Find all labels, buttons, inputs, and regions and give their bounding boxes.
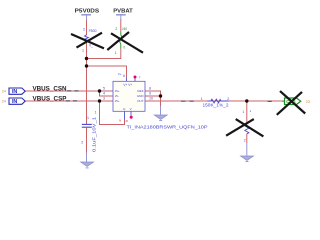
svg-text:6: 6 bbox=[123, 74, 125, 78]
svg-text:8: 8 bbox=[149, 87, 151, 91]
op-amp U INA2180 current sense amplifier bbox=[95, 72, 153, 123]
net label trailing dashes CSN bbox=[67, 90, 78, 91]
svg-text:2: 2 bbox=[244, 138, 246, 142]
svg-text:VBUS_CSN: VBUS_CSN bbox=[33, 86, 68, 93]
resistor R (DNP) to ground bbox=[243, 109, 252, 142]
svg-text:N: N bbox=[119, 119, 121, 123]
wire DNP resistor to ground stub bbox=[246, 134, 248, 143]
pin NC top stub bbox=[134, 78, 136, 82]
power port PVBAT bbox=[113, 9, 133, 20]
svg-text:1: 1 bbox=[95, 110, 97, 114]
svg-text:3: 3 bbox=[103, 96, 105, 100]
svg-text:J40: J40 bbox=[122, 27, 127, 31]
wire jumper bottom to junction bbox=[87, 49, 121, 59]
jumper J (DNP) on PVBAT bbox=[115, 27, 127, 55]
no-ERC dot bottom bbox=[130, 116, 133, 119]
svg-text:IN: IN bbox=[12, 99, 17, 105]
svg-text:P5V0DS: P5V0DS bbox=[75, 9, 100, 15]
svg-text:IN+: IN+ bbox=[115, 89, 120, 93]
wire OUT to output port bbox=[145, 100, 285, 102]
svg-text:PVBAT: PVBAT bbox=[113, 9, 133, 15]
port VBUS_CSN bbox=[2, 88, 25, 95]
svg-text:GND: GND bbox=[137, 94, 145, 98]
svg-text:VBUS_CSP: VBUS_CSP bbox=[33, 96, 67, 103]
wire CSP branch to IC bottom pin bbox=[100, 101, 125, 125]
wire from bead down through junctions to cap bbox=[86, 43, 88, 125]
svg-text:24: 24 bbox=[2, 90, 6, 94]
junction dot V+ branch bbox=[85, 64, 88, 67]
svg-text:1: 1 bbox=[201, 97, 203, 101]
net label dashes on OUT wire bbox=[181, 101, 272, 102]
svg-text:0: 0 bbox=[123, 46, 125, 50]
svg-text:REF: REF bbox=[137, 89, 143, 93]
wire cap to ground stub bbox=[86, 128, 88, 153]
svg-text:4: 4 bbox=[103, 91, 105, 95]
wire REF pin to ground node bbox=[145, 91, 161, 96]
junction dot CSN bbox=[98, 89, 101, 92]
power port P5V0DS bbox=[75, 9, 100, 21]
pin V+ top stub bbox=[126, 78, 128, 81]
svg-text:2: 2 bbox=[227, 97, 229, 101]
ground (right, below DNP resistor) bbox=[241, 143, 254, 162]
junction dot OUT bbox=[245, 99, 248, 102]
wire ground node red stub bbox=[160, 96, 162, 106]
svg-text:10: 10 bbox=[149, 97, 153, 101]
svg-text:2: 2 bbox=[115, 27, 117, 31]
svg-text:7: 7 bbox=[139, 75, 141, 79]
resistor R 150K bbox=[201, 97, 230, 108]
svg-text:1: 1 bbox=[243, 110, 245, 114]
svg-text:V+: V+ bbox=[118, 72, 122, 76]
wire OUT branch down to DNP resistor bbox=[246, 101, 248, 125]
wire GND pin bbox=[145, 95, 161, 97]
junction dot REF/GND bbox=[159, 94, 162, 97]
svg-text:OUT: OUT bbox=[137, 99, 144, 103]
DNP cross over resistor bbox=[226, 119, 263, 136]
capacitor C 0.1uF bbox=[81, 116, 96, 152]
svg-text:1: 1 bbox=[250, 109, 252, 113]
svg-text:24: 24 bbox=[2, 100, 6, 104]
DNP cross over ferrite bead bbox=[71, 33, 104, 49]
DNP cross over output port bbox=[277, 91, 305, 115]
svg-text:FB30: FB30 bbox=[89, 29, 97, 33]
DNP cross over jumper bbox=[107, 32, 143, 53]
svg-text:2: 2 bbox=[81, 141, 83, 145]
svg-text:IN: IN bbox=[12, 89, 17, 95]
wire PVBAT stub bbox=[120, 19, 122, 32]
port output (DNP) bbox=[282, 98, 310, 105]
svg-text:1: 1 bbox=[115, 51, 117, 55]
svg-text:1: 1 bbox=[82, 48, 84, 52]
svg-text:9: 9 bbox=[149, 92, 151, 96]
svg-text:150K_1%_2: 150K_1%_2 bbox=[203, 103, 230, 108]
wire P5V0DS vertical feed bbox=[86, 20, 88, 35]
ground (left, below cap) bbox=[81, 153, 94, 168]
svg-text:5: 5 bbox=[103, 86, 105, 90]
svg-text:2: 2 bbox=[83, 27, 85, 31]
svg-text:1: 1 bbox=[87, 116, 89, 120]
svg-text:23: 23 bbox=[306, 100, 310, 104]
wire V+ branch to IC top pin bbox=[87, 66, 127, 78]
svg-text:TI_INA2180BRSWR_UQFN_10P: TI_INA2180BRSWR_UQFN_10P bbox=[127, 125, 208, 131]
svg-text:0.1uF_10V_1: 0.1uF_10V_1 bbox=[92, 116, 97, 152]
svg-text:IN+: IN+ bbox=[115, 99, 120, 103]
junction dot CSP bbox=[98, 99, 101, 102]
ground (middle, REF/GND) bbox=[154, 106, 167, 121]
no-ERC dot top bbox=[134, 76, 137, 79]
svg-text:V+ V+: V+ V+ bbox=[123, 83, 132, 87]
wire VBUS_CSP bbox=[25, 100, 113, 102]
ferrite bead FB (DNP) on P5V0DS bbox=[82, 27, 97, 52]
port VBUS_CSP bbox=[2, 98, 25, 105]
net label trailing dashes CSP bbox=[66, 100, 77, 101]
junction dot PVBAT/P5V0DS bbox=[85, 57, 88, 60]
pin NC bottom stub bbox=[130, 111, 132, 116]
pin bottom stub (to CSP branch) bbox=[124, 111, 126, 119]
wire CSN branch to pin 4 bbox=[100, 91, 114, 96]
svg-text:IN-: IN- bbox=[115, 94, 119, 98]
wire VBUS_CSN bbox=[25, 90, 113, 92]
